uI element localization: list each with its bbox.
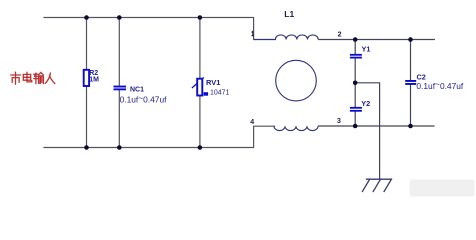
svg-text:RV1: RV1 (206, 78, 220, 87)
svg-text:2: 2 (338, 31, 342, 38)
svg-text:0.1uf~0.47uf: 0.1uf~0.47uf (120, 93, 168, 105)
svg-text:1M: 1M (89, 77, 99, 84)
svg-text:10471: 10471 (210, 89, 230, 96)
svg-text:Y2: Y2 (361, 99, 370, 108)
svg-text:3: 3 (337, 118, 341, 125)
svg-text:L1: L1 (284, 9, 294, 19)
svg-text:0.1uf~0.47uf: 0.1uf~0.47uf (416, 79, 464, 91)
svg-text:4: 4 (250, 119, 254, 126)
svg-text:Y1: Y1 (362, 44, 371, 53)
